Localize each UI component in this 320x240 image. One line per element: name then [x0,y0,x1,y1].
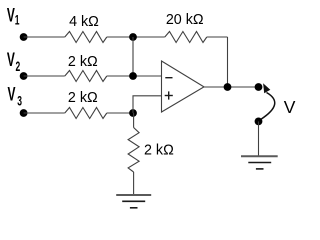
op-amp U1 [162,61,205,112]
wire V2 resistor to inverting input [107,75,162,77]
svg-text:4 kΩ: 4 kΩ [69,14,99,30]
wire feedback top right [207,36,228,38]
wire V1 resistor to feedback node [107,36,165,38]
node output terminal dot top [255,83,263,91]
wire V3 to resistor [24,112,65,114]
node B junction dot V2/inverting [129,72,137,80]
node C junction dot V3 [129,109,137,117]
svg-text:20 kΩ: 20 kΩ [166,12,204,28]
ground left [116,195,151,208]
wire node C up to noninverting input [133,96,162,113]
resistor 4 kOhm [65,32,107,43]
wire node C down to resistor [133,113,135,128]
wire resistor to ground left [133,172,135,195]
svg-text:2 kΩ: 2 kΩ [144,143,174,159]
node output junction dot [224,83,232,91]
wire output to ground right [258,121,260,155]
svg-text:2 kΩ: 2 kΩ [68,90,98,106]
node V1 terminal dot [20,33,28,41]
wire V2 to resistor [24,75,65,77]
svg-text:V: V [8,85,16,105]
node V2 terminal dot [20,72,28,80]
svg-text:2 kΩ: 2 kΩ [68,54,98,70]
node output terminal dot bottom [255,118,263,126]
node V3 terminal dot [20,109,28,117]
resistor 2 kOhm (V3) [65,108,107,119]
ground right [241,156,278,169]
label V3 [8,85,22,110]
svg-text:V: V [7,6,15,26]
voltage arrow arc [261,83,275,119]
svg-text:2: 2 [16,60,21,74]
label V2 [7,51,20,75]
wire op-amp output [204,86,259,88]
svg-text:1: 1 [15,14,20,28]
svg-text:V: V [284,97,296,117]
wire feedback vertical [227,37,229,87]
wire node A down to node B [132,37,134,76]
svg-text:3: 3 [17,95,22,109]
resistor 2 kOhm vertical [128,128,139,173]
resistor 2 kOhm (V2) [65,71,107,82]
resistor 20 kOhm feedback [165,32,207,43]
wire V1 to resistor [24,36,65,38]
label V1 [7,6,20,28]
node A junction dot V1/feedback [129,33,137,41]
wire V3 resistor to node C [107,112,133,114]
svg-text:V: V [7,51,15,71]
